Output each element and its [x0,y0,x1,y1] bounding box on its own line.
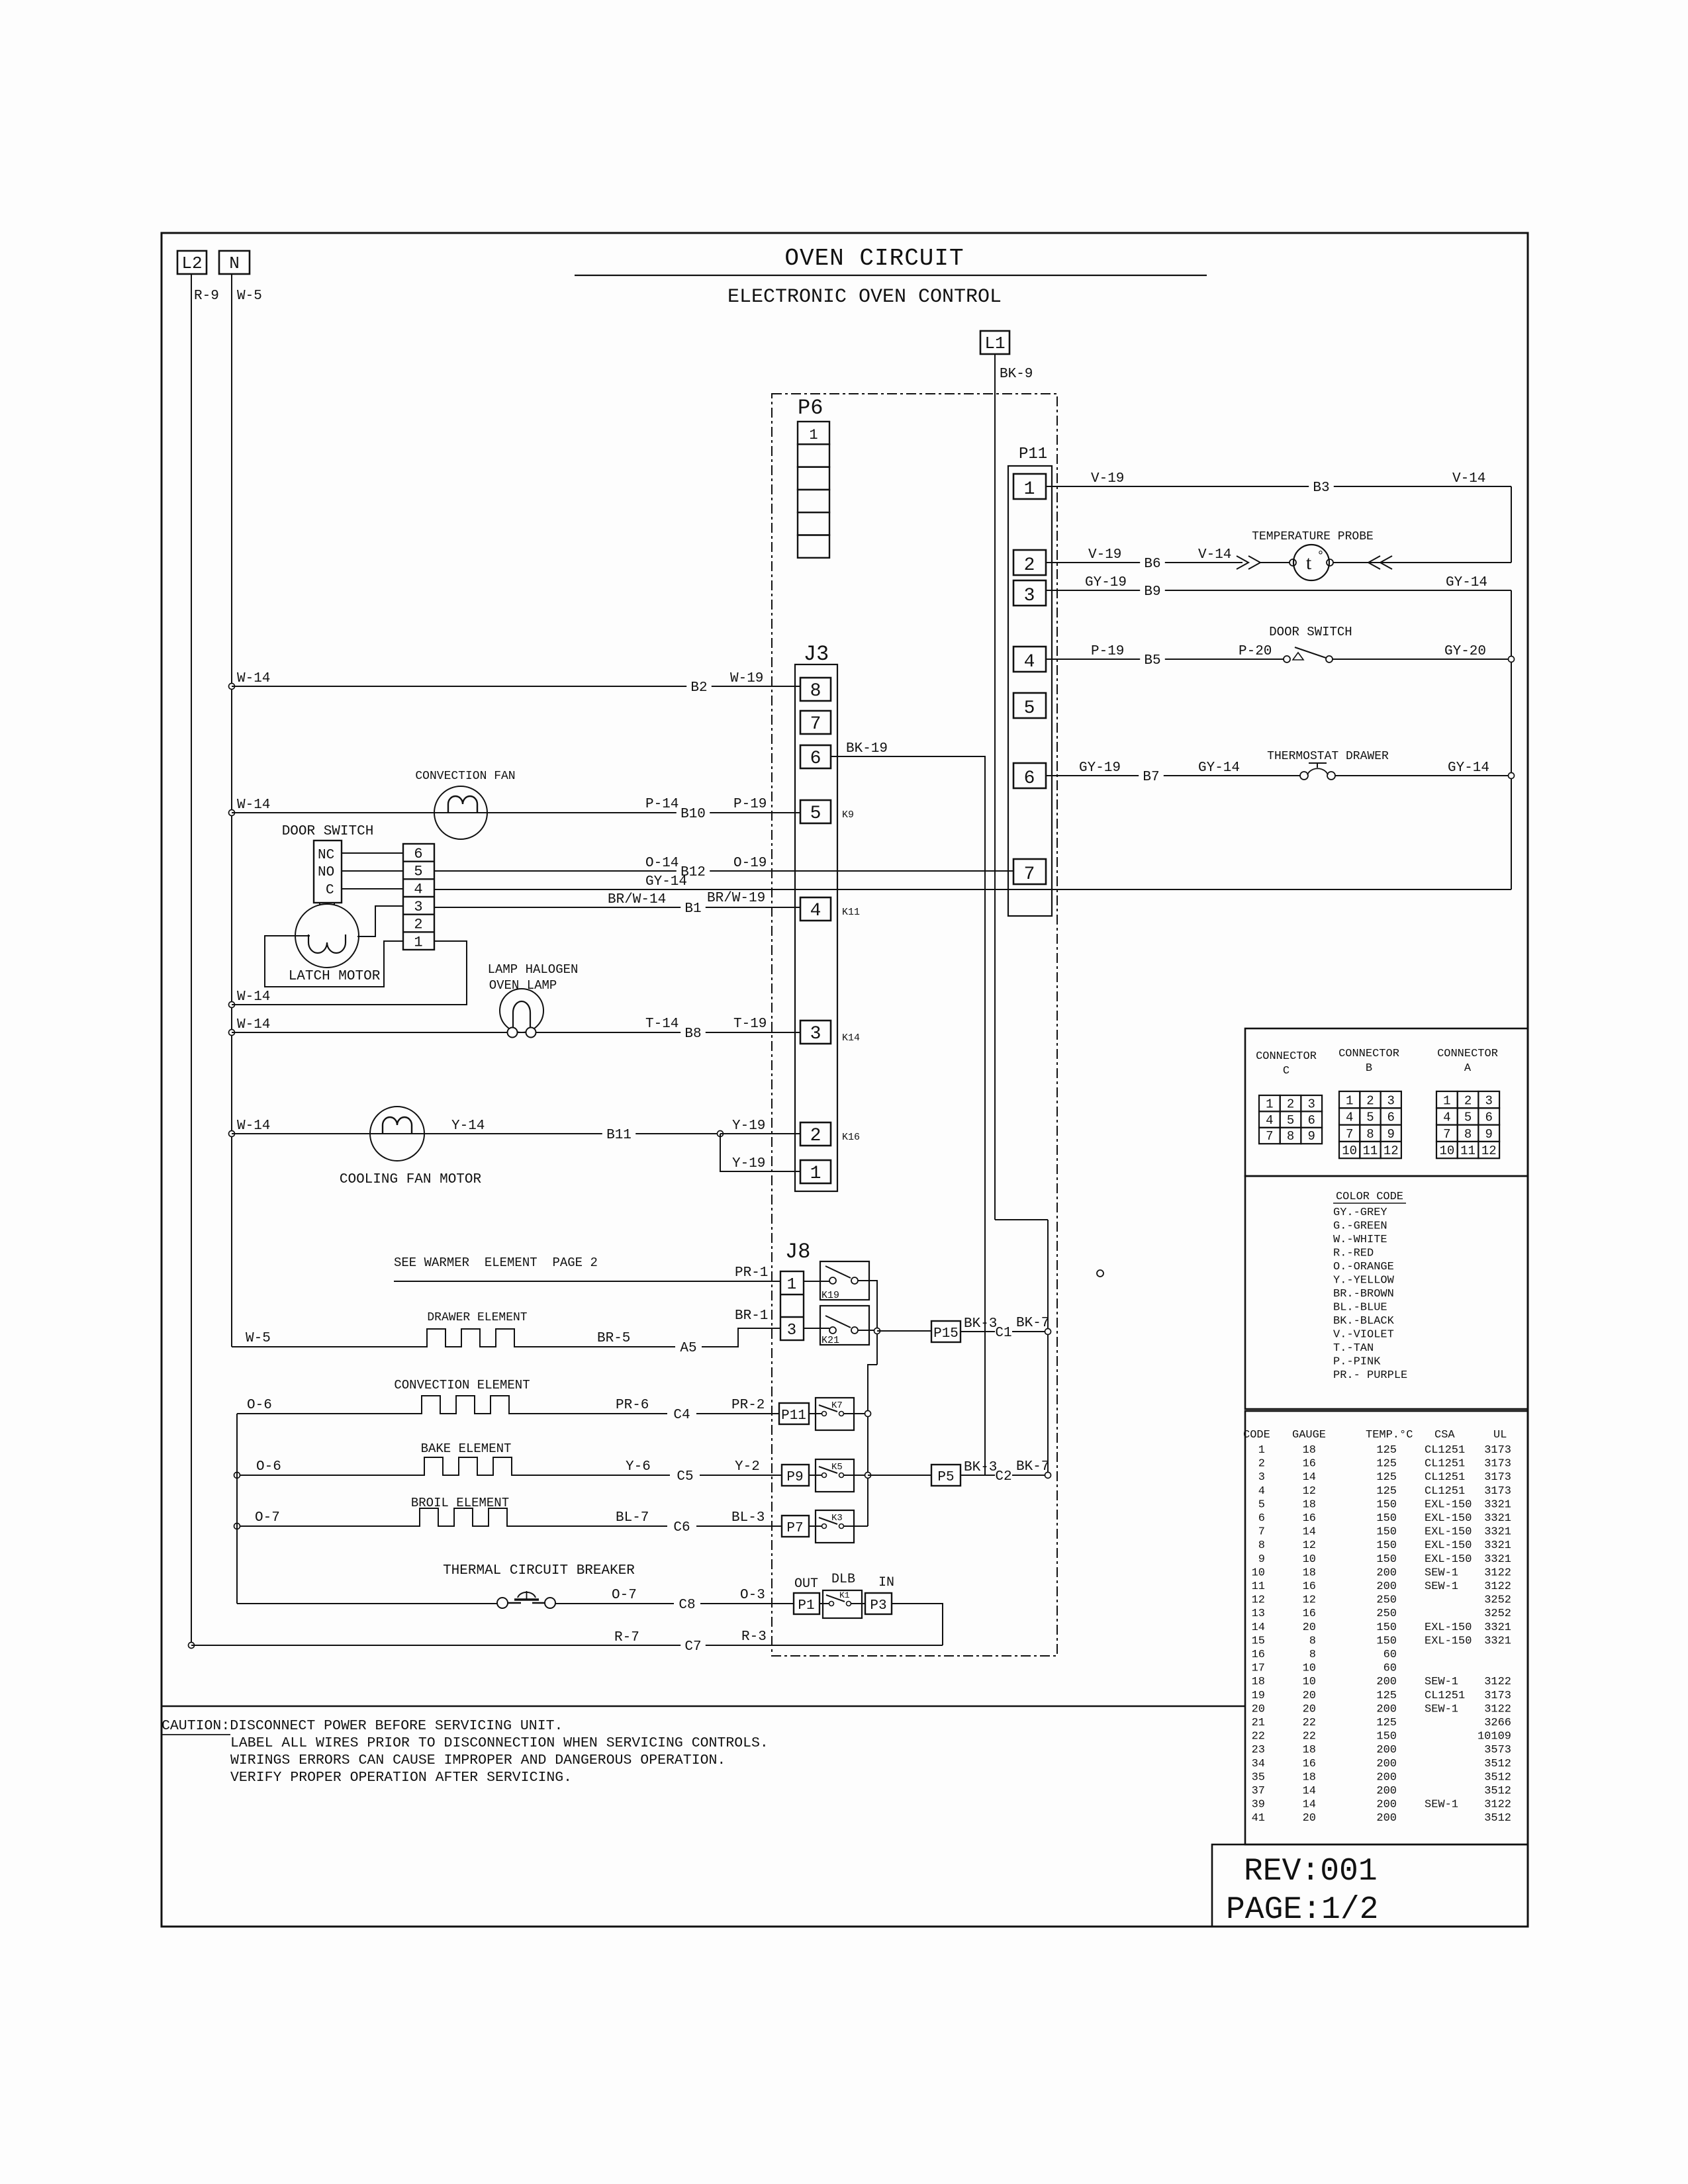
svg-text:6: 6 [1485,1111,1493,1125]
wire J8 pin1 to K19 [804,1281,829,1282]
wire BK bus down to C1/C2 rows [1047,1220,1049,1475]
svg-text:DLB: DLB [831,1572,855,1587]
svg-text:K3: K3 [831,1513,843,1524]
svg-text:1: 1 [1443,1093,1450,1108]
svg-text:1: 1 [787,1276,796,1294]
svg-text:NC: NC [318,848,334,863]
svg-text:P1: P1 [798,1598,814,1614]
svg-text:3173: 3173 [1484,1485,1511,1498]
svg-text:3512: 3512 [1484,1785,1511,1797]
svg-text:125: 125 [1376,1485,1397,1498]
wire probe to V bus [1333,562,1511,563]
svg-text:16: 16 [1303,1580,1316,1593]
svg-text:R-7: R-7 [614,1630,639,1645]
svg-text:PR-2: PR-2 [731,1398,765,1413]
svg-text:18: 18 [1303,1744,1316,1756]
svg-text:A5: A5 [680,1341,696,1356]
svg-text:C7: C7 [684,1639,701,1655]
svg-text:EXL-150: EXL-150 [1425,1539,1472,1552]
svg-text:3173: 3173 [1484,1471,1511,1484]
P11 pin 5 [1013,693,1046,718]
J3 pin 5 [800,800,831,823]
svg-text:4: 4 [810,901,821,921]
svg-text:V-14: V-14 [1198,547,1231,563]
svg-text:B: B [1366,1062,1372,1075]
svg-text:CONNECTOR: CONNECTOR [1437,1048,1498,1060]
svg-text:W-14: W-14 [237,989,270,1005]
svg-text:PR-6: PR-6 [616,1398,649,1413]
svg-text:21: 21 [1252,1717,1265,1729]
svg-text:W-14: W-14 [237,797,270,813]
svg-text:200: 200 [1376,1580,1397,1593]
svg-text:14: 14 [1303,1471,1316,1484]
svg-text:C: C [326,883,334,898]
svg-text:O-6: O-6 [256,1459,281,1475]
svg-text:ELECTRONIC OVEN CONTROL: ELECTRONIC OVEN CONTROL [727,286,1002,308]
wire V bus down to probe [1511,486,1512,563]
relay K3 [816,1510,854,1543]
svg-text:3173: 3173 [1484,1458,1511,1471]
svg-text:3: 3 [1024,586,1035,606]
svg-text:8: 8 [1366,1127,1374,1142]
svg-text:16: 16 [1303,1512,1316,1525]
svg-text:PAGE:1/2: PAGE:1/2 [1226,1892,1378,1928]
svg-text:EXL-150: EXL-150 [1425,1526,1472,1539]
svg-text:4: 4 [414,881,422,897]
svg-text:6: 6 [414,846,422,862]
svg-text:7: 7 [1024,864,1035,885]
wire GY-14 from door switch C to right bus [434,889,1511,890]
wire W-14 P-14 B10 P-19 into J3 pin 5 [229,810,235,816]
svg-text:3321: 3321 [1484,1526,1511,1539]
probe body [1293,545,1329,580]
svg-text:COLOR CODE: COLOR CODE [1336,1191,1403,1203]
svg-text:10: 10 [1439,1144,1454,1158]
svg-text:5: 5 [1287,1113,1294,1128]
svg-text:V-19: V-19 [1088,547,1121,563]
svg-text:K11: K11 [842,907,860,918]
svg-text:12: 12 [1252,1594,1265,1607]
J3 pin 4 [800,897,831,921]
svg-text:3: 3 [1485,1093,1493,1108]
svg-text:O-14: O-14 [645,856,679,871]
svg-text:C8: C8 [679,1598,695,1613]
svg-text:TEMP.°C: TEMP.°C [1366,1429,1413,1441]
svg-text:14: 14 [1303,1785,1316,1797]
svg-text:17: 17 [1252,1662,1265,1675]
svg-text:CODE: CODE [1243,1429,1270,1441]
svg-text:DOOR SWITCH: DOOR SWITCH [282,824,374,839]
svg-text:P-19: P-19 [733,797,767,812]
svg-text:18: 18 [1303,1444,1316,1457]
wire K3 output to bus [844,1525,868,1527]
svg-text:22: 22 [1303,1731,1316,1743]
svg-text:CL1251: CL1251 [1425,1444,1465,1457]
wire K7 output to bus junction [844,1413,868,1414]
svg-text:BR.-BROWN: BR.-BROWN [1333,1288,1394,1300]
svg-text:VERIFY PROPER OPERATION AFTER: VERIFY PROPER OPERATION AFTER SERVICING. [230,1770,572,1786]
svg-text:J3: J3 [804,642,829,666]
svg-text:1: 1 [809,427,818,443]
svg-text:B3: B3 [1313,480,1329,496]
svg-text:9: 9 [1308,1129,1315,1144]
svg-text:8: 8 [810,681,821,702]
svg-text:W-14: W-14 [237,671,270,686]
wire P5 BK-3 C2 BK-7 to buses [961,1475,995,1476]
svg-text:3: 3 [1387,1093,1395,1108]
svg-text:6: 6 [1024,768,1035,789]
svg-text:SEW-1: SEW-1 [1425,1567,1458,1579]
J3 pin 3 [800,1021,831,1044]
relay K21 [820,1306,869,1345]
svg-text:P7: P7 [786,1521,803,1536]
spare terminal circle [1097,1270,1103,1277]
svg-text:7: 7 [1266,1129,1273,1144]
svg-text:K7: K7 [831,1400,843,1411]
svg-text:B6: B6 [1144,557,1160,572]
svg-text:V-14: V-14 [1452,471,1485,486]
svg-text:CSA: CSA [1434,1429,1455,1441]
svg-text:K1: K1 [839,1590,850,1600]
plug P5 [931,1465,961,1486]
svg-text:P5: P5 [937,1470,954,1485]
P11 pin 1 [1013,474,1046,499]
svg-text:4: 4 [1346,1111,1353,1125]
plug P7 [782,1516,809,1537]
svg-text:W.-WHITE: W.-WHITE [1333,1234,1387,1246]
svg-text:BR-1: BR-1 [735,1308,768,1324]
svg-text:6: 6 [1308,1113,1315,1128]
wire NC to pin 6 [342,852,403,854]
svg-text:125: 125 [1376,1471,1397,1484]
svg-text:6: 6 [810,749,821,769]
svg-text:20: 20 [1303,1690,1316,1702]
svg-text:BL-7: BL-7 [616,1510,649,1525]
svg-text:B5: B5 [1144,653,1160,668]
svg-text:W-5: W-5 [246,1331,271,1346]
relay K5 [816,1459,854,1492]
svg-text:B11: B11 [606,1128,632,1143]
svg-text:8: 8 [1258,1539,1265,1552]
svg-text:OUT: OUT [794,1576,818,1592]
svg-text:O-3: O-3 [740,1588,765,1603]
svg-text:K9: K9 [842,809,854,821]
lamp terminals [508,1028,518,1038]
svg-text:18: 18 [1303,1771,1316,1784]
J3 pin 2 [800,1122,831,1146]
svg-text:C6: C6 [673,1520,690,1535]
svg-text:11: 11 [1363,1144,1378,1158]
wire GY bus down right side [1511,590,1512,889]
svg-text:BK-3: BK-3 [964,1316,997,1332]
svg-text:5: 5 [1464,1111,1472,1125]
svg-text:150: 150 [1376,1635,1397,1647]
svg-text:SEW-1: SEW-1 [1425,1703,1458,1715]
wire Y-19 junction into J3 pin 2 [718,1131,724,1137]
svg-text:150: 150 [1376,1621,1397,1634]
svg-text:1: 1 [1024,479,1035,500]
svg-text:10: 10 [1303,1662,1316,1675]
wire GY-20 to bus [1333,659,1511,660]
P11 pin 3 [1013,580,1046,606]
svg-text:P9: P9 [786,1470,803,1485]
wire BK-19 from J3 pin 6 down to C2 row [831,756,985,1475]
svg-text:T.-TAN: T.-TAN [1333,1342,1374,1355]
svg-text:V.-VIOLET: V.-VIOLET [1333,1329,1394,1342]
svg-text:60: 60 [1383,1649,1397,1661]
svg-text:200: 200 [1376,1771,1397,1784]
svg-text:2: 2 [414,917,422,933]
svg-text:23: 23 [1252,1744,1265,1756]
svg-text:GAUGE: GAUGE [1292,1429,1326,1441]
svg-text:10: 10 [1303,1553,1316,1566]
plug P9 [782,1465,809,1486]
svg-text:3122: 3122 [1484,1799,1511,1811]
svg-text:CAUTION:DISCONNECT POWER BEFOR: CAUTION:DISCONNECT POWER BEFORE SERVICIN… [162,1718,563,1734]
svg-text:2: 2 [1258,1458,1265,1471]
svg-text:LATCH MOTOR: LATCH MOTOR [289,969,381,984]
svg-text:T-14: T-14 [645,1017,679,1032]
svg-text:W-19: W-19 [730,671,763,686]
wire NO to pin 5 [342,870,403,872]
svg-text:PR.- PURPLE: PR.- PURPLE [1333,1369,1407,1382]
plug P15 [931,1321,961,1342]
svg-text:T-19: T-19 [733,1017,767,1032]
svg-text:Y-14: Y-14 [451,1118,485,1134]
svg-text:3: 3 [414,899,422,915]
wire W-5 from N down to drawer element row [231,274,232,1347]
wire P7 plug to K3 contact [809,1525,822,1527]
svg-text:N: N [229,253,240,273]
color code box [1245,1176,1528,1409]
svg-text:GY-14: GY-14 [1446,575,1487,590]
svg-text:3252: 3252 [1484,1608,1511,1620]
svg-text:19: 19 [1252,1690,1265,1702]
svg-text:TEMPERATURE PROBE: TEMPERATURE PROBE [1252,530,1374,543]
svg-text:7: 7 [1258,1526,1265,1539]
svg-text:2: 2 [1366,1093,1374,1108]
svg-text:K14: K14 [842,1032,860,1044]
svg-text:°: ° [1317,549,1324,563]
svg-text:O-7: O-7 [612,1588,637,1603]
svg-text:P.-PINK: P.-PINK [1333,1356,1381,1369]
wire to probe [1260,562,1289,563]
J3 pin 7 [800,711,831,734]
svg-text:CL1251: CL1251 [1425,1485,1465,1498]
svg-text:BK-7: BK-7 [1016,1459,1049,1475]
svg-text:LABEL ALL WIRES PRIOR TO DISCO: LABEL ALL WIRES PRIOR TO DISCONNECTION W… [230,1735,769,1751]
svg-text:3321: 3321 [1484,1553,1511,1566]
svg-text:6: 6 [1258,1512,1265,1525]
svg-text:3: 3 [787,1322,796,1340]
svg-text:3321: 3321 [1484,1635,1511,1647]
svg-text:Y-6: Y-6 [626,1459,651,1475]
svg-text:2: 2 [1287,1097,1294,1111]
svg-text:250: 250 [1376,1594,1397,1607]
svg-text:2: 2 [1464,1093,1472,1108]
svg-text:3266: 3266 [1484,1717,1511,1729]
svg-text:3512: 3512 [1484,1771,1511,1784]
svg-text:BR-5: BR-5 [597,1331,630,1346]
connector chart box [1245,1028,1528,1176]
wire W-14 to B2 W-19 into J3 pin 8 [229,684,235,690]
terminal L1 [980,331,1009,354]
svg-text:DRAWER ELEMENT: DRAWER ELEMENT [427,1311,527,1324]
svg-text:IN: IN [878,1575,894,1590]
svg-text:16: 16 [1303,1608,1316,1620]
horizontal separator line above caution [162,1706,1245,1707]
svg-text:CONVECTION ELEMENT: CONVECTION ELEMENT [394,1378,530,1392]
svg-text:EXL-150: EXL-150 [1425,1498,1472,1511]
J3 pin 6 [800,745,831,768]
svg-text:L1: L1 [984,334,1005,353]
wire junction to P15 [877,1330,931,1332]
svg-text:BR/W-14: BR/W-14 [608,892,666,907]
svg-text:7: 7 [1443,1127,1450,1142]
svg-text:4: 4 [1258,1485,1265,1498]
svg-text:CL1251: CL1251 [1425,1471,1465,1484]
svg-text:200: 200 [1376,1676,1397,1688]
relay K19 [820,1261,869,1300]
terminal L2 [177,251,207,274]
svg-text:200: 200 [1376,1812,1397,1825]
door switch contact [1284,656,1290,662]
svg-text:B7: B7 [1143,770,1159,785]
svg-text:16: 16 [1252,1649,1265,1661]
svg-text:1: 1 [1346,1093,1353,1108]
svg-text:THERMOSTAT DRAWER: THERMOSTAT DRAWER [1267,750,1389,763]
svg-text:39: 39 [1252,1799,1265,1811]
svg-text:11: 11 [1460,1144,1476,1158]
svg-text:SEW-1: SEW-1 [1425,1799,1458,1811]
svg-text:EXL-150: EXL-150 [1425,1512,1472,1525]
svg-text:3: 3 [1308,1097,1315,1111]
page border frame [162,233,1528,1927]
svg-text:6: 6 [1387,1111,1395,1125]
svg-text:5: 5 [414,864,422,880]
J3 pin 1 [800,1160,831,1183]
svg-text:UL: UL [1493,1429,1507,1441]
svg-text:C2: C2 [995,1469,1011,1484]
svg-text:20: 20 [1303,1621,1316,1634]
svg-text:250: 250 [1376,1608,1397,1620]
svg-text:P-14: P-14 [645,797,679,812]
svg-text:1: 1 [414,934,422,950]
svg-text:200: 200 [1376,1567,1397,1579]
svg-text:3173: 3173 [1484,1444,1511,1457]
svg-text:200: 200 [1376,1744,1397,1756]
svg-text:Y.-YELLOW: Y.-YELLOW [1333,1275,1395,1287]
svg-text:W-5: W-5 [237,289,262,304]
svg-text:B2: B2 [690,680,707,696]
svg-text:GY-19: GY-19 [1085,575,1127,590]
svg-text:B10: B10 [680,807,706,822]
svg-text:5: 5 [1024,698,1035,719]
svg-text:200: 200 [1376,1758,1397,1770]
svg-text:W-14: W-14 [237,1118,270,1134]
svg-text:1: 1 [1258,1444,1265,1457]
wire R-7 C7 R-3 from L2 line to P3 loop [189,1643,195,1649]
svg-text:4: 4 [1266,1113,1273,1128]
wire W-14 to door switch pin 1 [229,1002,235,1008]
svg-text:7: 7 [1346,1127,1353,1142]
svg-text:C5: C5 [677,1469,693,1484]
wire P15 BK-3 C1 BK-7 to BK bus [961,1331,995,1332]
wire C to pin 4 [342,888,403,889]
svg-text:20: 20 [1303,1703,1316,1715]
svg-text:16: 16 [1303,1458,1316,1471]
svg-text:8: 8 [1309,1635,1316,1647]
svg-text:GY-19: GY-19 [1079,760,1121,776]
svg-text:5: 5 [810,803,821,824]
svg-text:B8: B8 [684,1026,701,1042]
svg-text:3321: 3321 [1484,1498,1511,1511]
svg-text:2: 2 [810,1126,821,1146]
svg-text:20: 20 [1252,1703,1265,1715]
svg-text:10109: 10109 [1477,1731,1511,1743]
cooling fan motor [370,1107,424,1161]
svg-text:EXL-150: EXL-150 [1425,1635,1472,1647]
svg-text:BL-3: BL-3 [731,1510,765,1525]
svg-text:12: 12 [1303,1539,1316,1552]
svg-text:3: 3 [810,1024,821,1044]
svg-text:3573: 3573 [1484,1744,1511,1756]
svg-text:5: 5 [1258,1498,1265,1511]
svg-text:125: 125 [1376,1458,1397,1471]
svg-text:P-19: P-19 [1091,644,1124,659]
svg-text:200: 200 [1376,1799,1397,1811]
svg-text:B1: B1 [684,901,701,917]
svg-text:W-14: W-14 [237,1017,270,1032]
svg-text:3252: 3252 [1484,1594,1511,1607]
svg-text:DOOR SWITCH: DOOR SWITCH [1269,625,1352,639]
svg-text:LAMP HALOGEN: LAMP HALOGEN [488,962,579,977]
P11 pin 2 [1013,550,1046,575]
svg-text:22: 22 [1252,1731,1265,1743]
svg-text:P15: P15 [933,1326,959,1342]
svg-text:P3: P3 [870,1598,886,1614]
svg-text:150: 150 [1376,1512,1397,1525]
svg-text:3512: 3512 [1484,1758,1511,1770]
wire Y-19 to J3 pin 1 [720,1134,800,1171]
svg-text:8: 8 [1309,1649,1316,1661]
wire V-19 B3 V-14 from P11 pin 1 [1046,486,1309,487]
probe plug chevrons [1237,556,1248,569]
revision box [1212,1844,1528,1927]
svg-text:20: 20 [1303,1812,1316,1825]
svg-text:Y-19: Y-19 [732,1118,765,1134]
svg-text:7: 7 [810,714,821,735]
svg-text:9: 9 [1485,1127,1493,1142]
svg-text:BK-19: BK-19 [846,741,888,756]
svg-text:C: C [1283,1065,1289,1077]
svg-text:THERMAL CIRCUIT BREAKER: THERMAL CIRCUIT BREAKER [443,1563,635,1578]
svg-text:K5: K5 [831,1462,843,1473]
svg-text:37: 37 [1252,1785,1265,1797]
svg-text:NO: NO [318,865,334,880]
svg-text:BL.-BLUE: BL.-BLUE [1333,1302,1387,1314]
svg-text:GY-14: GY-14 [645,874,687,889]
wire GY-19 B9 GY-14 from P11 pin 3 [1046,590,1140,591]
svg-text:125: 125 [1376,1444,1397,1457]
svg-text:16: 16 [1303,1758,1316,1770]
svg-text:41: 41 [1252,1812,1265,1825]
svg-text:15: 15 [1252,1635,1265,1647]
junction relay outputs C1 row [874,1328,880,1334]
svg-text:1: 1 [1266,1097,1273,1111]
svg-text:GY.-GREY: GY.-GREY [1333,1206,1387,1219]
svg-text:C1: C1 [995,1326,1011,1341]
